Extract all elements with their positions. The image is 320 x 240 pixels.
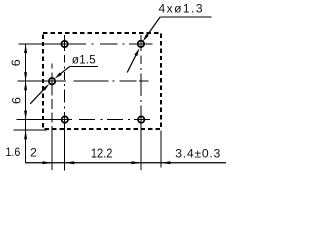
svg-text:6: 6 xyxy=(9,59,23,66)
component outline (bold dashed rectangle) xyxy=(43,33,161,129)
callout ø1.5 leader segment xyxy=(58,67,70,76)
bottom dimension line y=161.9 xyxy=(25,162,226,164)
callout ø1.5 lower tail xyxy=(30,86,47,104)
svg-text:1.6: 1.6 xyxy=(6,147,21,160)
vertical centerline x=64.7 (left pin column) xyxy=(64,35,66,171)
arrow left at x=160.9 xyxy=(161,161,171,164)
arrow down at y=119.6 xyxy=(24,111,27,120)
callout ø1.5 arrow at hole lower-left xyxy=(43,84,50,91)
arrow down at y=81.2 xyxy=(24,72,27,81)
vertical centerline x=52 (middle pin, extension to dims) xyxy=(51,64,53,170)
callout 4xø1.3 arrow at hole lower-left xyxy=(134,48,139,56)
arrow up at y=130.2 xyxy=(24,130,27,139)
callout 4xø1.3 leader segment xyxy=(145,17,161,39)
svg-text:6: 6 xyxy=(9,97,23,104)
pin hole middle-left (1.5mm) xyxy=(49,78,55,84)
svg-text:12.2: 12.2 xyxy=(91,146,113,161)
centerline row y=119.6 (bottom pin row) xyxy=(17,119,151,121)
callout 4xø1.3 landing line xyxy=(160,16,211,18)
arrow up at y=81.2 xyxy=(24,81,27,90)
callout ø1.5 landing line xyxy=(70,66,99,68)
svg-text:4xø1.3: 4xø1.3 xyxy=(159,1,203,15)
pin hole bottom-left xyxy=(62,116,68,122)
svg-text:3.4±0.3: 3.4±0.3 xyxy=(175,147,220,161)
arrow right at x=52 xyxy=(43,161,53,164)
centerline row y=81.2 (middle pin) xyxy=(18,80,149,82)
pin hole top-left xyxy=(61,41,67,47)
arrow up at y=44 xyxy=(24,44,27,53)
pin hole top-right xyxy=(138,41,144,47)
svg-text:ø1.5: ø1.5 xyxy=(72,52,96,66)
arrow right at x=141 xyxy=(132,161,142,164)
svg-text:2: 2 xyxy=(30,146,37,160)
pin hole bottom-right xyxy=(138,116,144,122)
extension line y=130.2 (outline bottom extended left) xyxy=(14,129,48,131)
callout 4xø1.3 lower tail xyxy=(127,54,136,73)
centerline row y=44 (top pin row) xyxy=(19,43,153,45)
vertical centerline x=141 (right pin column) xyxy=(140,35,142,170)
vertical dimension line x=25.6 (6 / 6 / 1.6 stack) xyxy=(25,44,27,163)
callout 4xø1.3 arrow at hole upper-right xyxy=(143,34,149,41)
callout ø1.5 arrow at hole upper-right xyxy=(55,72,62,78)
extension line x=160.9 (outline right edge extended down) xyxy=(160,131,162,168)
arrow left at x=64.8 xyxy=(65,161,75,164)
